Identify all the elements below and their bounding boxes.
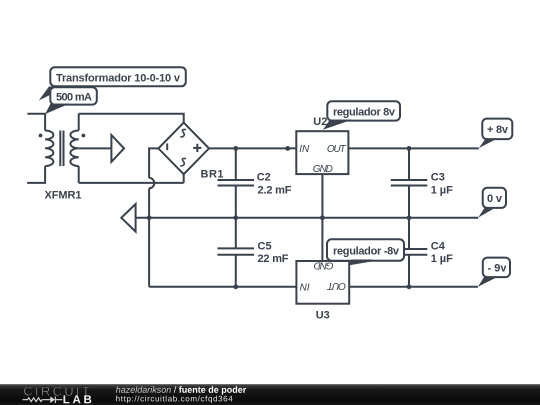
wire U2 GND / U3 GND column — [321, 174, 323, 261]
net flag triangle left — [121, 204, 135, 232]
callout tail (regulador 8v) — [323, 120, 352, 130]
phase dot secondary — [82, 134, 86, 138]
wire secondary top stub — [78, 114, 80, 131]
capacitor C4 — [391, 249, 428, 255]
bridge tilde bottom — [180, 158, 186, 165]
regulator U3 — [296, 261, 349, 304]
junction 0v left — [147, 215, 152, 220]
svg-text:http://circuitlab.com/cfqd364: http://circuitlab.com/cfqd364 — [116, 394, 234, 403]
wire -9 rail right — [349, 286, 478, 288]
svg-text:U2: U2 — [313, 116, 327, 128]
svg-text:C5: C5 — [258, 241, 272, 253]
svg-text:C3: C3 — [431, 172, 445, 184]
net flag +8v — [479, 119, 513, 149]
svg-text:1 µF: 1 µF — [431, 253, 453, 265]
svg-text:IN: IN — [299, 281, 310, 292]
wire primary top — [27, 114, 45, 131]
svg-text:IN: IN — [299, 144, 310, 155]
transformer XFMR1 — [27, 114, 85, 183]
junction 0v C3 — [407, 215, 412, 220]
wire secondary bottom rail with hop — [79, 182, 184, 184]
minus sign (rotated) — [166, 143, 168, 150]
junction C3 top — [407, 146, 412, 151]
capacitor C3 — [391, 180, 428, 186]
callout regulador 8v — [327, 101, 400, 120]
wire C2 column — [235, 148, 237, 286]
svg-text:22 mF: 22 mF — [258, 253, 289, 265]
junction 0v C2 — [233, 215, 238, 220]
svg-text:XFMR1: XFMR1 — [45, 190, 82, 202]
wire primary bottom — [27, 166, 45, 183]
svg-text:1 µF: 1 µF — [431, 185, 453, 197]
svg-text:LAB: LAB — [63, 394, 92, 405]
svg-text:0 v: 0 v — [487, 193, 503, 205]
capacitor C2 — [218, 180, 255, 186]
svg-text:500 mA: 500 mA — [56, 92, 92, 104]
svg-text:hazeldarikson / fuente de pode: hazeldarikson / fuente de poder — [116, 385, 247, 395]
callout tail (500 mA) — [45, 104, 69, 114]
callout tail (regulador -8v) — [349, 260, 373, 266]
svg-text:OUT: OUT — [327, 144, 347, 155]
wire +8 rail left — [209, 147, 296, 149]
svg-text:C4: C4 — [431, 241, 446, 253]
svg-text:regulador -8v: regulador -8v — [333, 246, 400, 258]
phase dot primary — [39, 134, 43, 138]
logo resistor-diode symbol — [22, 396, 62, 403]
net flag triangle right — [111, 135, 124, 162]
svg-text:+ 8v: + 8v — [487, 124, 509, 136]
junction C4 bottom — [407, 284, 412, 289]
svg-text:U3: U3 — [316, 309, 330, 321]
wire bridge left with hop over rail — [149, 148, 158, 286]
svg-text:C2: C2 — [257, 172, 271, 184]
callout Transformador 10-0-10 v — [50, 67, 186, 86]
wire hop arc — [149, 178, 154, 188]
callout tail (Transformador) — [39, 87, 67, 101]
wire -9 rail left — [149, 286, 296, 288]
junction C5 bottom — [233, 284, 238, 289]
svg-text:Transformador 10-0-10 v: Transformador 10-0-10 v — [56, 73, 181, 85]
net flag -9v — [478, 258, 510, 287]
wire 0v rail — [136, 217, 479, 219]
wire secondary top to bridge — [79, 114, 184, 123]
bridge tilde top — [180, 129, 186, 136]
junction U2 in — [285, 146, 290, 151]
svg-text:GND: GND — [313, 164, 333, 175]
svg-text:regulador 8v: regulador 8v — [333, 107, 396, 119]
capacitor C5 — [218, 248, 255, 254]
diamond body — [158, 123, 209, 175]
junction 0v gnd — [320, 215, 325, 220]
core lines — [60, 131, 63, 167]
regulator U2 — [296, 131, 348, 174]
secondary winding — [70, 131, 78, 167]
primary winding — [45, 131, 53, 167]
junction C2 top — [233, 146, 238, 151]
footer bar — [0, 384, 540, 405]
wire C3 column — [408, 148, 410, 286]
wire center tap — [79, 147, 112, 149]
wire secondary bottom stub — [78, 166, 80, 183]
wire +8 rail right — [348, 147, 478, 149]
wire bridge bottom stub — [183, 174, 185, 183]
svg-text:- 9v: - 9v — [488, 263, 508, 275]
svg-text:OUT: OUT — [326, 280, 346, 291]
svg-text:2.2 mF: 2.2 mF — [258, 185, 292, 197]
plus sign — [193, 144, 201, 152]
net flag 0v — [478, 188, 506, 218]
callout 500 mA — [50, 87, 97, 104]
bridge rectifier BR1 — [158, 123, 209, 175]
callout regulador -8v — [327, 239, 404, 260]
svg-text:BR1: BR1 — [201, 168, 224, 180]
